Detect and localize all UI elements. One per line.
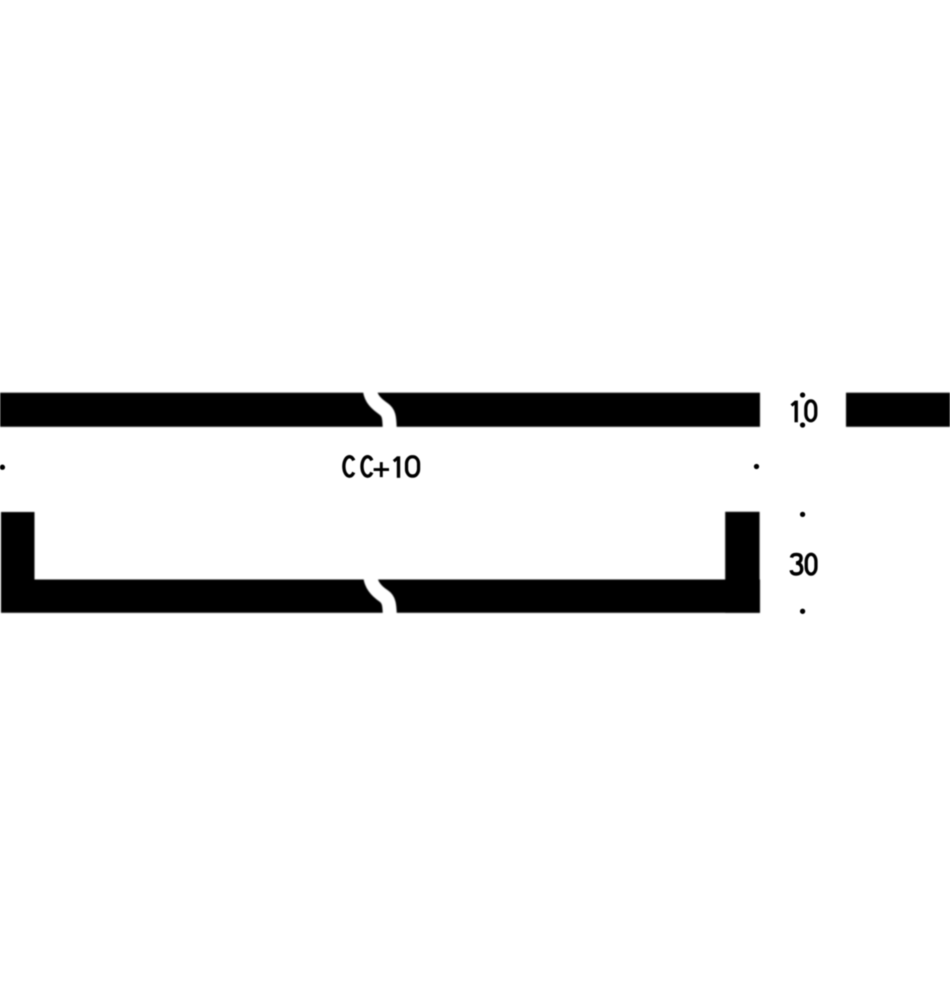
dimension dot above label 10 <box>800 392 805 397</box>
top plate right segment <box>846 393 950 427</box>
label 30 (channel height) <box>791 554 816 574</box>
break symbol on channel bottom flange <box>370 577 390 615</box>
label 10 (plate thickness) <box>792 401 816 423</box>
channel right wall <box>725 512 759 613</box>
break symbol on top plate <box>370 391 390 428</box>
dimension dot below label 10 <box>800 422 805 427</box>
top plate left segment <box>0 393 760 427</box>
dimension dot below label 30 <box>800 609 805 614</box>
label CC+10 (overall length) <box>344 456 419 478</box>
dimension dot right end of CC+10 <box>754 464 759 469</box>
channel bottom flange <box>1 580 760 613</box>
dimension dot left end of CC+10 <box>0 465 5 470</box>
dimension dot above label 30 <box>800 512 805 517</box>
channel left wall <box>1 512 35 612</box>
